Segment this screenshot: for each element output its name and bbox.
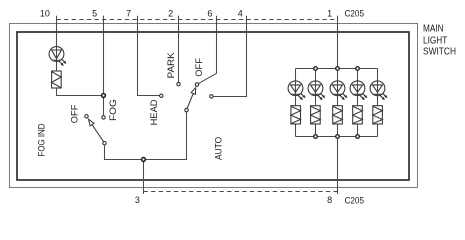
junction branch 2 top rail <box>314 67 318 71</box>
svg-text:AUTO: AUTO <box>214 137 224 160</box>
title MAIN LIGHT SWITCH <box>423 24 456 58</box>
LED D2 <box>308 81 323 98</box>
resistor R5 <box>353 106 363 124</box>
wire branch 2 <box>315 69 317 137</box>
wire bottom rail to pin 8 <box>337 137 339 195</box>
svg-text:3: 3 <box>135 195 140 205</box>
wire pin 10 through fog indicator LED to resistor R1 <box>56 16 58 71</box>
main switch OFF contact <box>195 83 198 86</box>
connector C205 top dashed line <box>57 19 338 21</box>
wire LED array bottom rail <box>296 136 378 138</box>
svg-text:6: 6 <box>207 9 212 19</box>
svg-text:C205: C205 <box>345 9 365 19</box>
junction branch 2 bottom rail <box>314 135 318 139</box>
svg-text:MAIN: MAIN <box>423 24 444 35</box>
svg-text:5: 5 <box>92 9 97 19</box>
svg-text:PARK: PARK <box>166 52 176 78</box>
svg-text:LIGHT: LIGHT <box>423 36 447 47</box>
fog switch arm <box>88 119 103 142</box>
LED D4 <box>350 81 365 98</box>
svg-text:OFF: OFF <box>194 58 204 77</box>
wire LED array top rail <box>296 68 378 70</box>
svg-text:OFF: OFF <box>70 104 80 123</box>
LED D1 <box>288 81 304 98</box>
junction pin5/resistor node <box>102 94 106 98</box>
LED D3 <box>330 81 345 98</box>
resistor R3 <box>311 106 321 124</box>
fog switch OFF contact <box>85 115 88 118</box>
svg-text:C205: C205 <box>345 196 365 206</box>
resistor R4 <box>333 106 343 124</box>
svg-text:FOG IND: FOG IND <box>37 123 47 156</box>
inner component box <box>17 32 409 180</box>
main switch pivot contact <box>185 108 188 111</box>
fog switch FOG contact <box>102 116 105 119</box>
wire pin 3 drop <box>143 160 145 195</box>
svg-text:HEAD: HEAD <box>149 99 159 125</box>
junction pin3 on common rail <box>142 158 146 162</box>
main switch AUTO contact <box>210 95 213 98</box>
svg-text:7: 7 <box>126 9 131 19</box>
main switch arm <box>187 87 196 108</box>
wire pin 1 to LED array top rail <box>337 16 339 69</box>
svg-text:8: 8 <box>327 195 332 205</box>
wire pin 4 to AUTO contact <box>213 16 246 97</box>
fog indicator resistor <box>52 71 62 88</box>
svg-text:1: 1 <box>327 9 332 19</box>
wire pin 6 to OFF contact <box>198 16 216 84</box>
resistor R2 <box>291 106 301 124</box>
junction branch 4 bottom rail <box>356 135 360 139</box>
svg-text:FOG: FOG <box>108 99 118 121</box>
outer component box <box>10 24 418 188</box>
wire pin 5 to FOG contact <box>103 16 105 116</box>
wire branch 5 <box>377 69 379 137</box>
LED D5 <box>370 81 385 98</box>
svg-text:4: 4 <box>238 9 243 19</box>
main switch HEAD contact <box>160 94 163 97</box>
svg-text:2: 2 <box>168 9 173 19</box>
wire branch 1 <box>295 69 297 137</box>
wire branch 3 <box>337 69 339 137</box>
wire fog switch pivot to common rail <box>105 112 187 160</box>
wire pin 7 to HEAD contact <box>138 16 160 96</box>
resistor R6 <box>373 106 383 124</box>
svg-text:SWITCH: SWITCH <box>423 46 456 57</box>
wire resistor R1 to pin5 node <box>57 88 104 96</box>
wire branch 4 <box>357 69 359 137</box>
connector C205 bottom dashed line <box>144 191 338 193</box>
svg-text:10: 10 <box>40 9 50 19</box>
junction branch 3 top rail <box>336 67 340 71</box>
junction branch 4 top rail <box>356 67 360 71</box>
main switch PARK contact <box>177 82 180 85</box>
fog indicator LED <box>49 47 64 64</box>
wire pin 2 to PARK contact <box>178 16 180 83</box>
junction branch 3 bottom rail <box>336 135 340 139</box>
fog switch pivot contact <box>103 142 106 145</box>
